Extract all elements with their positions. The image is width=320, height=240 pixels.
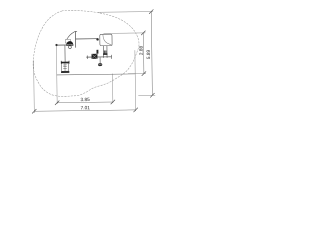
svg-text:7.01: 7.01	[81, 105, 91, 111]
extension line: right of 3.85 (slide right edge down)	[111, 74, 113, 103]
table ladder stile	[64, 64, 66, 71]
chute left side	[102, 46, 104, 58]
panel cap (dark)	[96, 50, 98, 54]
table bottom bar (dark)	[61, 71, 69, 73]
table ladder rungs	[63, 65, 66, 69]
extension line: left of 3.85 / platform left post	[55, 45, 58, 104]
dimension line 2.88	[142, 33, 145, 74]
slide inner curve	[103, 34, 112, 45]
axle beam	[87, 56, 112, 58]
spool (dark hatched block)	[92, 54, 98, 59]
chute crossbar (dark)	[103, 53, 107, 55]
svg-text:3.85: 3.85	[80, 97, 90, 103]
swing arm diagonal	[67, 32, 74, 39]
tick right 3.85	[111, 100, 115, 104]
equipment bottom edge	[57, 74, 135, 75]
table post	[64, 46, 66, 62]
chute right side	[106, 46, 108, 58]
pole base highlight	[99, 63, 102, 65]
circle under dome	[69, 46, 72, 49]
slide entry dot	[96, 38, 99, 41]
tick left 3.85	[55, 101, 59, 105]
table box	[62, 63, 69, 71]
rail from left dot to dome	[56, 44, 66, 46]
extension line: top of 2.88 (equipment top edge out to right)	[104, 32, 146, 35]
swing post cap	[74, 30, 77, 32]
seat dome (dark)	[66, 41, 73, 46]
spool highlight X	[92, 54, 97, 58]
left rail dot	[55, 44, 57, 46]
tick right 7.01	[134, 108, 138, 112]
pole stem	[99, 58, 101, 63]
dimension line 3.85	[57, 101, 113, 104]
axle right end tick	[110, 55, 112, 59]
swing post	[74, 32, 76, 48]
tick bottom 2.88	[142, 72, 146, 76]
tick top 2.88	[141, 31, 145, 35]
rail from slide to post	[76, 38, 97, 40]
tick bottom 5.89	[150, 93, 154, 97]
pole base ellipse (dark)	[98, 63, 102, 66]
extension line: left of 7.01 (boundary leftmost down to dim)	[33, 61, 36, 113]
chute crossbar stubs	[104, 51, 106, 54]
extension line: bottom of 2.88 (equipment bottom edge out)	[128, 73, 146, 75]
dimension line 7.01	[34, 110, 135, 111]
dome inner highlight	[67, 43, 73, 46]
tick left 7.01	[32, 109, 36, 113]
dimension line 5.89	[151, 12, 152, 96]
safety zone boundary (dashed irregular outline)	[32, 9, 139, 96]
axle left end tick	[86, 56, 88, 59]
table top bar (dark)	[61, 62, 69, 64]
extension line: right of 7.01 / equipment right edge	[134, 50, 137, 110]
extension line: bottom of 5.89 (boundary bottom out to right)	[138, 94, 155, 96]
table top bar end caps	[61, 61, 69, 64]
svg-text:2.88: 2.88	[139, 46, 145, 56]
extension line: top of 5.89 (boundary top out to right)	[98, 11, 153, 14]
small box behind dome	[65, 40, 70, 43]
slide body (rounded box)	[100, 34, 112, 46]
tick top 5.89	[149, 10, 153, 14]
svg-text:5.89: 5.89	[146, 50, 152, 60]
